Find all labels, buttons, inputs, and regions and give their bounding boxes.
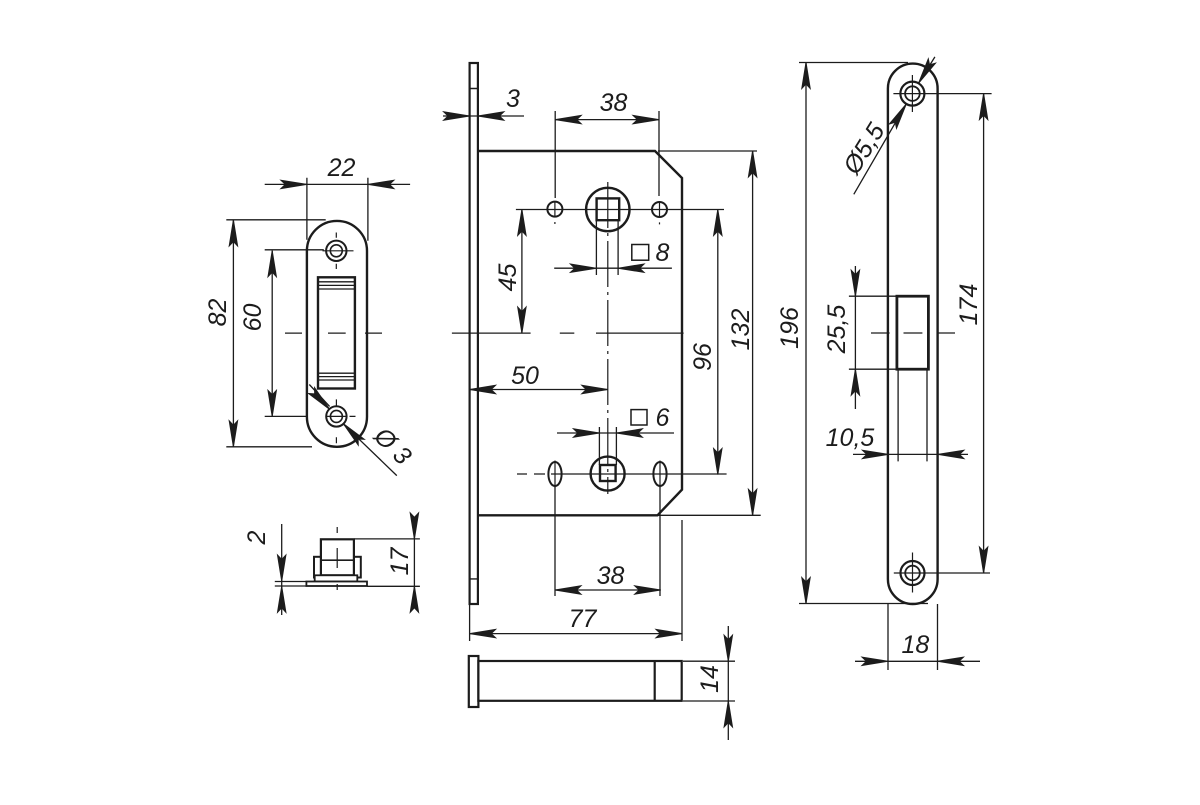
- dimension 2 line and tails: [281, 524, 283, 615]
- square symbol for 8: [632, 245, 649, 261]
- top screw hole outer circle: [326, 241, 346, 261]
- dimension 17 line: [413, 521, 415, 604]
- dimension 22 extension lines: [307, 178, 368, 241]
- svg-text:77: 77: [569, 605, 598, 633]
- side view latch block line: [654, 661, 656, 701]
- dimension 174 arrows: [979, 94, 987, 120]
- svg-text:8: 8: [656, 239, 670, 267]
- dimension 50 arrows: [470, 385, 496, 393]
- lower left oval vertical mark: [554, 461, 556, 488]
- svg-text:10,5: 10,5: [826, 424, 875, 452]
- dimension 196 arrows: [802, 63, 810, 89]
- dimension 77 arrows: [470, 629, 496, 637]
- square symbol for 6: [631, 410, 647, 425]
- dimension 82 arrows: [229, 220, 237, 246]
- dimension 22 line: [265, 183, 410, 185]
- svg-text:60: 60: [239, 304, 267, 332]
- upper holes horizontal centerline: [516, 209, 724, 211]
- dimension 77 extension lines: [470, 520, 682, 641]
- upper spindle circle: [586, 188, 629, 231]
- svg-text:3: 3: [506, 85, 520, 113]
- latch cutout hatch lines top: [318, 282, 355, 289]
- dimension 96 line: [717, 210, 719, 475]
- dimension 18 arrows: [862, 657, 888, 665]
- svg-text:22: 22: [327, 154, 356, 182]
- upper right hole vertical mark and dot: [659, 202, 661, 224]
- dimension 38 bottom extension lines: [555, 487, 660, 596]
- dimension 82 line: [232, 220, 234, 447]
- faceplate horizontal centerline: [871, 332, 955, 334]
- svg-text:38: 38: [597, 562, 625, 590]
- svg-text:18: 18: [901, 631, 929, 659]
- dimension 25,5 line tails: [854, 266, 856, 409]
- lower spindle square hole 6mm: [600, 465, 616, 481]
- dimension 6 extension lines: [599, 427, 616, 465]
- dimension 38 top arrows: [555, 115, 581, 123]
- dimension 3 arrows: [444, 112, 470, 120]
- faceplate bottom screw hole outer: [901, 561, 925, 585]
- dimension 17 extension lines: [355, 539, 420, 586]
- faceplate bottom hole crosshair / 174 bottom extension: [894, 553, 990, 593]
- side view flange: [315, 575, 358, 581]
- dimension 82 extension lines: [226, 220, 325, 447]
- dimension 132 extension lines: [658, 151, 761, 515]
- dimension 18 extension lines: [888, 604, 938, 670]
- dimension 50 line: [470, 389, 608, 391]
- dimension 38 top line: [555, 119, 659, 121]
- dimension 196 extension lines: [799, 63, 928, 604]
- faceplate top hole crosshair / 174 top extension: [893, 75, 991, 112]
- dimension 132 line: [752, 151, 754, 515]
- strike plate outline: [307, 221, 367, 447]
- faceplate outline: [888, 64, 938, 604]
- svg-text:82: 82: [204, 299, 232, 327]
- dimension 60 arrows: [268, 251, 276, 277]
- svg-text:25,5: 25,5: [823, 305, 851, 355]
- spindle vertical centerline: [607, 182, 609, 494]
- svg-text:38: 38: [600, 89, 628, 117]
- dimension 10,5 arrows: [862, 450, 888, 458]
- side view body bar: [478, 661, 681, 701]
- svg-text:6: 6: [656, 404, 670, 432]
- svg-text:14: 14: [696, 665, 724, 693]
- top screw hole inner circle: [330, 245, 342, 257]
- lower holes horizontal centerline: [517, 473, 727, 475]
- faceplate strip: [470, 63, 478, 604]
- side view base plate: [306, 582, 367, 587]
- svg-text:45: 45: [494, 264, 522, 292]
- dimension 14 line: [727, 626, 729, 740]
- dimension 10,5 line: [853, 453, 968, 455]
- side view faceplate cap: [469, 656, 479, 707]
- side view latch block: [321, 539, 354, 575]
- dimension 14 extension lines: [683, 661, 735, 701]
- side view outer walls: [314, 557, 361, 578]
- dimension 6 line tails: [557, 432, 674, 434]
- diameter 5,5 leader arrows: [889, 102, 910, 129]
- dimension 17 arrows: [410, 513, 418, 539]
- faceplate strip end marks: [470, 89, 478, 579]
- dimension 60 extension line: [265, 250, 324, 417]
- diameter 3 leader arrows: [309, 388, 333, 413]
- dimension 45 line: [521, 210, 523, 334]
- upper left hole vertical mark and dot: [554, 202, 556, 224]
- dimension 77 line: [470, 633, 682, 635]
- dimension 132 arrows: [748, 151, 756, 177]
- svg-text:96: 96: [689, 343, 717, 371]
- svg-text:174: 174: [955, 284, 983, 326]
- dimension 38 top extension lines: [555, 111, 659, 198]
- top screw hole crosshair: [323, 233, 354, 270]
- dimension 14 arrows: [724, 635, 732, 661]
- dimension 8 extension lines: [596, 221, 618, 275]
- svg-text:50: 50: [511, 362, 539, 390]
- dimension 8 arrows: [570, 264, 596, 272]
- bottom screw hole inner circle: [330, 410, 342, 422]
- dimension 25,5 arrows: [851, 270, 859, 296]
- bottom screw hole outer circle: [326, 406, 346, 426]
- side view vertical centerline: [336, 527, 338, 590]
- latch hole lower extension lines: [898, 369, 927, 461]
- dimension 25,5 extension lines: [849, 296, 897, 369]
- upper right screw hole: [652, 202, 667, 217]
- dimension 2 extension lines: [275, 582, 307, 587]
- upper left screw hole: [547, 202, 562, 217]
- lower spindle circle: [591, 457, 625, 491]
- latch hole rectangle: [897, 296, 929, 369]
- dimension 38 bottom line: [555, 589, 661, 591]
- dimension 38 bottom arrows: [555, 586, 581, 594]
- dimension 45 arrows: [518, 210, 526, 236]
- dimension 18 line tails: [855, 660, 980, 662]
- bottom screw hole crosshair: [327, 399, 356, 443]
- svg-text:2: 2: [243, 530, 271, 545]
- body horizontal centerline: [452, 332, 684, 334]
- dimension 174 line: [983, 94, 985, 573]
- upper spindle square hole 8mm: [597, 198, 620, 220]
- dimension 8 line tails: [554, 267, 672, 269]
- lower right oval vertical mark: [659, 461, 661, 488]
- faceplate top screw hole outer: [900, 82, 924, 106]
- svg-text:196: 196: [776, 307, 804, 349]
- dimension 60 line: [271, 251, 273, 417]
- svg-text:132: 132: [727, 309, 755, 351]
- side view latch block step line: [321, 559, 354, 561]
- dimension 6 arrows: [573, 429, 599, 437]
- lock body outline with chamfered corners: [478, 151, 682, 515]
- dimension 3 line tails: [443, 115, 524, 117]
- latch cutout hatch lines bottom: [318, 373, 355, 380]
- faceplate top screw hole inner: [905, 86, 920, 101]
- dimension 2 arrows: [278, 555, 286, 581]
- faceplate bottom screw hole inner: [905, 566, 920, 581]
- horizontal centerline of strike plate: [285, 332, 382, 334]
- svg-text:17: 17: [386, 547, 414, 576]
- latch cutout rectangle: [318, 277, 355, 388]
- lower right oval hole: [653, 462, 666, 486]
- dimension 22 arrows: [281, 180, 307, 188]
- dimension 196 line: [805, 63, 807, 604]
- dimension 96 arrows: [714, 210, 722, 236]
- diameter 5,5 leader line: [854, 57, 935, 194]
- lower left oval hole: [548, 462, 561, 486]
- diameter 3 leader line: [309, 385, 397, 476]
